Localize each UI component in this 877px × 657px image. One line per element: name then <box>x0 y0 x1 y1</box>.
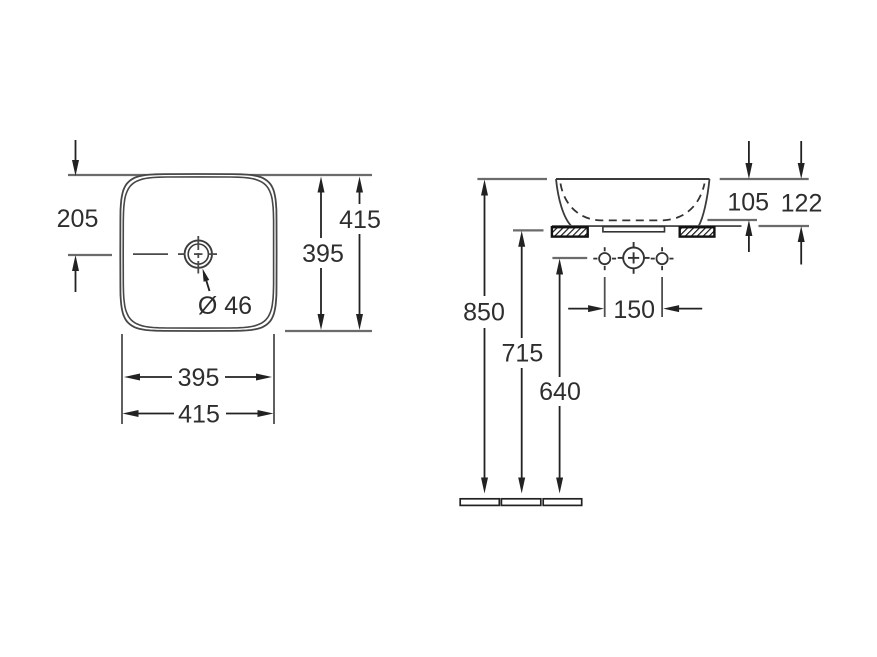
extension line below basin right <box>273 334 275 424</box>
tap hole right (small circle with centre ticks) <box>651 247 674 270</box>
basin rim top edge <box>556 178 710 180</box>
svg-text:715: 715 <box>502 340 544 368</box>
drain centre line vertical (dashed) <box>197 236 199 274</box>
tap hole centre (circle with centre cross) <box>618 242 650 274</box>
svg-text:105: 105 <box>727 189 769 217</box>
extension line bottom right (basin bottom level) <box>285 330 372 332</box>
floor segment 1 <box>460 499 499 506</box>
dimension 715 vertical line <box>518 231 525 494</box>
svg-text:205: 205 <box>57 205 99 233</box>
dimension 205 arrow top <box>72 140 79 176</box>
floor segment 3 <box>543 499 582 506</box>
countertop line <box>552 225 742 227</box>
dimension 122 arrow top <box>798 141 805 179</box>
drain centre line horizontal (dashed) <box>133 253 217 255</box>
basin outer outline (rounded square) <box>120 174 276 331</box>
extension line top left (rim level, for 850) <box>477 178 547 180</box>
svg-text:640: 640 <box>539 378 581 406</box>
dimension 105 arrow bottom <box>745 220 752 252</box>
floor segment 2 <box>501 499 540 506</box>
dimension 395 horizontal <box>124 374 272 381</box>
extension line top (rim level) <box>68 174 372 176</box>
svg-text:Ø 46: Ø 46 <box>198 292 252 320</box>
basin right outer wall <box>699 179 710 226</box>
svg-text:150: 150 <box>613 296 655 324</box>
dimension 640 vertical line <box>556 259 563 494</box>
svg-text:415: 415 <box>339 206 381 234</box>
dimension 205 arrow bottom <box>72 255 79 292</box>
dimension 150 <box>568 305 702 312</box>
extension line for 105 bottom (inner bottom level) <box>707 219 757 221</box>
dimension 395 vertical (line + arrows) <box>318 177 325 331</box>
svg-text:395: 395 <box>302 240 344 268</box>
svg-text:395: 395 <box>178 364 220 392</box>
left mounting pad (hatched) <box>552 227 588 236</box>
extension line for 640 top (tap hole centre level) <box>552 257 587 259</box>
drain hole inner circle <box>188 244 208 264</box>
dimension 415 horizontal <box>123 410 274 417</box>
drain hole outer circle <box>185 240 212 267</box>
dimension 850 vertical line <box>481 180 488 494</box>
tap hole left (small circle with centre ticks) <box>593 247 616 270</box>
right mounting pad (hatched) <box>680 227 715 236</box>
dimension 122 arrow bottom <box>798 226 805 265</box>
dimension 415 vertical (line + arrows) <box>356 177 363 331</box>
leader arrow to drain <box>203 269 210 292</box>
extension line below basin left <box>121 334 123 424</box>
basin inner rim outline <box>123 177 273 328</box>
dimension 105 arrow top <box>745 141 752 179</box>
extension line top right (rim level, for 105/122) <box>720 178 809 180</box>
basin foot rectangle <box>603 227 665 232</box>
extension line for 122 bottom <box>759 225 810 227</box>
extension line below right tap hole <box>661 277 663 317</box>
extension line for 715 top (counter level stub) <box>513 229 544 231</box>
svg-text:850: 850 <box>463 299 505 327</box>
extension line below left tap hole <box>604 277 606 317</box>
inner bowl profile (dashed) <box>561 184 705 221</box>
extension line at drain centre level (left) <box>68 254 112 256</box>
svg-text:415: 415 <box>178 401 220 429</box>
basin left outer wall <box>556 179 572 226</box>
svg-text:122: 122 <box>781 190 823 218</box>
